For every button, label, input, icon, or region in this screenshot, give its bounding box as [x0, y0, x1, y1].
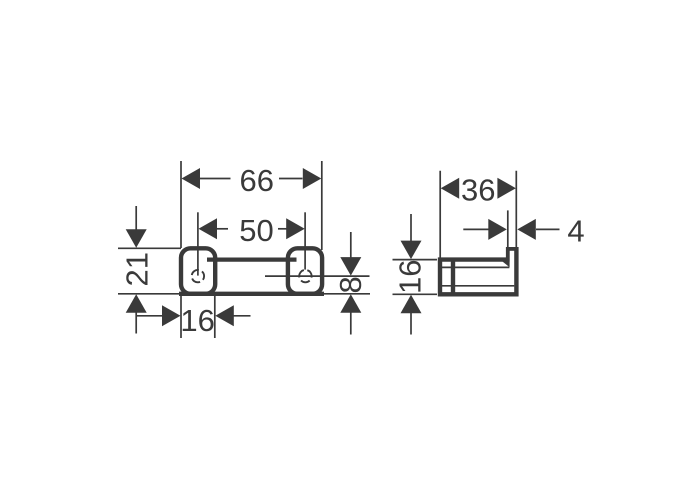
dim 4: left extension line [507, 210, 509, 248]
side view: hook tip left edge [506, 247, 510, 262]
dim 66: left extension line [180, 161, 182, 248]
dim 50: right shaft [278, 228, 287, 230]
front view: bottom extension line [118, 293, 370, 295]
dim 66: left arrow [182, 168, 201, 189]
dim 4: left shaft [463, 228, 489, 230]
dim 4: left arrow (points right) [488, 219, 507, 240]
dim 21: top arrow [126, 229, 147, 248]
side view: inner floor line [442, 285, 514, 287]
side view: hook tip beak wedge [502, 261, 509, 267]
dim 21: bottom shaft [135, 313, 137, 334]
svg-text:21: 21 [120, 252, 155, 286]
dim 36: left extension line [439, 171, 441, 258]
svg-text:16: 16 [393, 259, 428, 293]
front view: holes horizontal centerline (8 top extension) [265, 275, 370, 277]
svg-text:4: 4 [567, 214, 584, 249]
dim 50: left arrow [199, 218, 218, 239]
dim 36: right arrow [497, 178, 516, 199]
front view: left screw hole (dashed circle) [192, 270, 204, 282]
dim 8: bottom arrow [340, 294, 361, 313]
svg-text:8: 8 [333, 276, 368, 293]
dim 16 side: top extension line [393, 259, 438, 261]
dim 16 front: left arrow (points right) [162, 305, 181, 326]
dim 16 side: top arrow [401, 241, 422, 260]
front view: left hole vertical centerline [197, 212, 199, 275]
dim 16 side: bottom arrow [401, 295, 422, 314]
dim 66: right arrow [303, 168, 322, 189]
dim 16 front: left extension line [180, 296, 182, 338]
dim 4: right arrow (points left) [517, 219, 536, 240]
dim 66: right extension line [321, 161, 323, 250]
dim 4: right shaft [536, 228, 560, 230]
dim 36: left arrow [441, 178, 460, 199]
front view: bar bottom edge [179, 292, 324, 296]
front view: right pad (rounded square) [288, 248, 322, 293]
dim 16 front: right extension line [214, 296, 216, 338]
front view: right screw hole (dashed circle) [299, 270, 311, 282]
dim 8: top arrow [340, 257, 361, 276]
dim 16 side: top shaft [410, 214, 412, 242]
side view: hook tip top edge [506, 247, 519, 251]
side view: bottom edge [438, 292, 519, 296]
dim 16 front: right shaft [233, 315, 251, 317]
svg-text:50: 50 [239, 213, 273, 248]
dim 21: top shaft [135, 206, 137, 231]
side view: wall plate divider [451, 260, 455, 295]
front view: top extension line (21 top) [118, 247, 181, 249]
dim 50: left shaft [217, 228, 229, 230]
dim 16 side: bottom shaft [410, 313, 412, 335]
dim 66: left shaft [200, 178, 231, 180]
dim 50: right arrow [286, 218, 305, 239]
svg-text:66: 66 [240, 163, 274, 198]
side view: inner ceiling line [442, 266, 509, 268]
dim 36: right extension line [515, 171, 517, 249]
side view: top edge [438, 257, 508, 261]
side view: left edge [438, 258, 442, 297]
front view: left pad (rounded square) [181, 248, 215, 293]
dim 8: top shaft [350, 232, 352, 258]
dim 16 front: left shaft [137, 315, 163, 317]
dim 8: bottom shaft [350, 313, 352, 335]
svg-text:16: 16 [180, 303, 214, 338]
dim 16 side: bottom extension line [393, 293, 438, 295]
dim 16 front: right arrow (points left) [215, 305, 234, 326]
dim 21: bottom arrow [126, 294, 147, 313]
front view: bar top edge [207, 258, 297, 262]
side view: right edge [514, 247, 518, 296]
front view: right hole vertical centerline [304, 212, 306, 269]
dim 66: right shaft [279, 178, 303, 180]
svg-text:36: 36 [461, 173, 495, 208]
